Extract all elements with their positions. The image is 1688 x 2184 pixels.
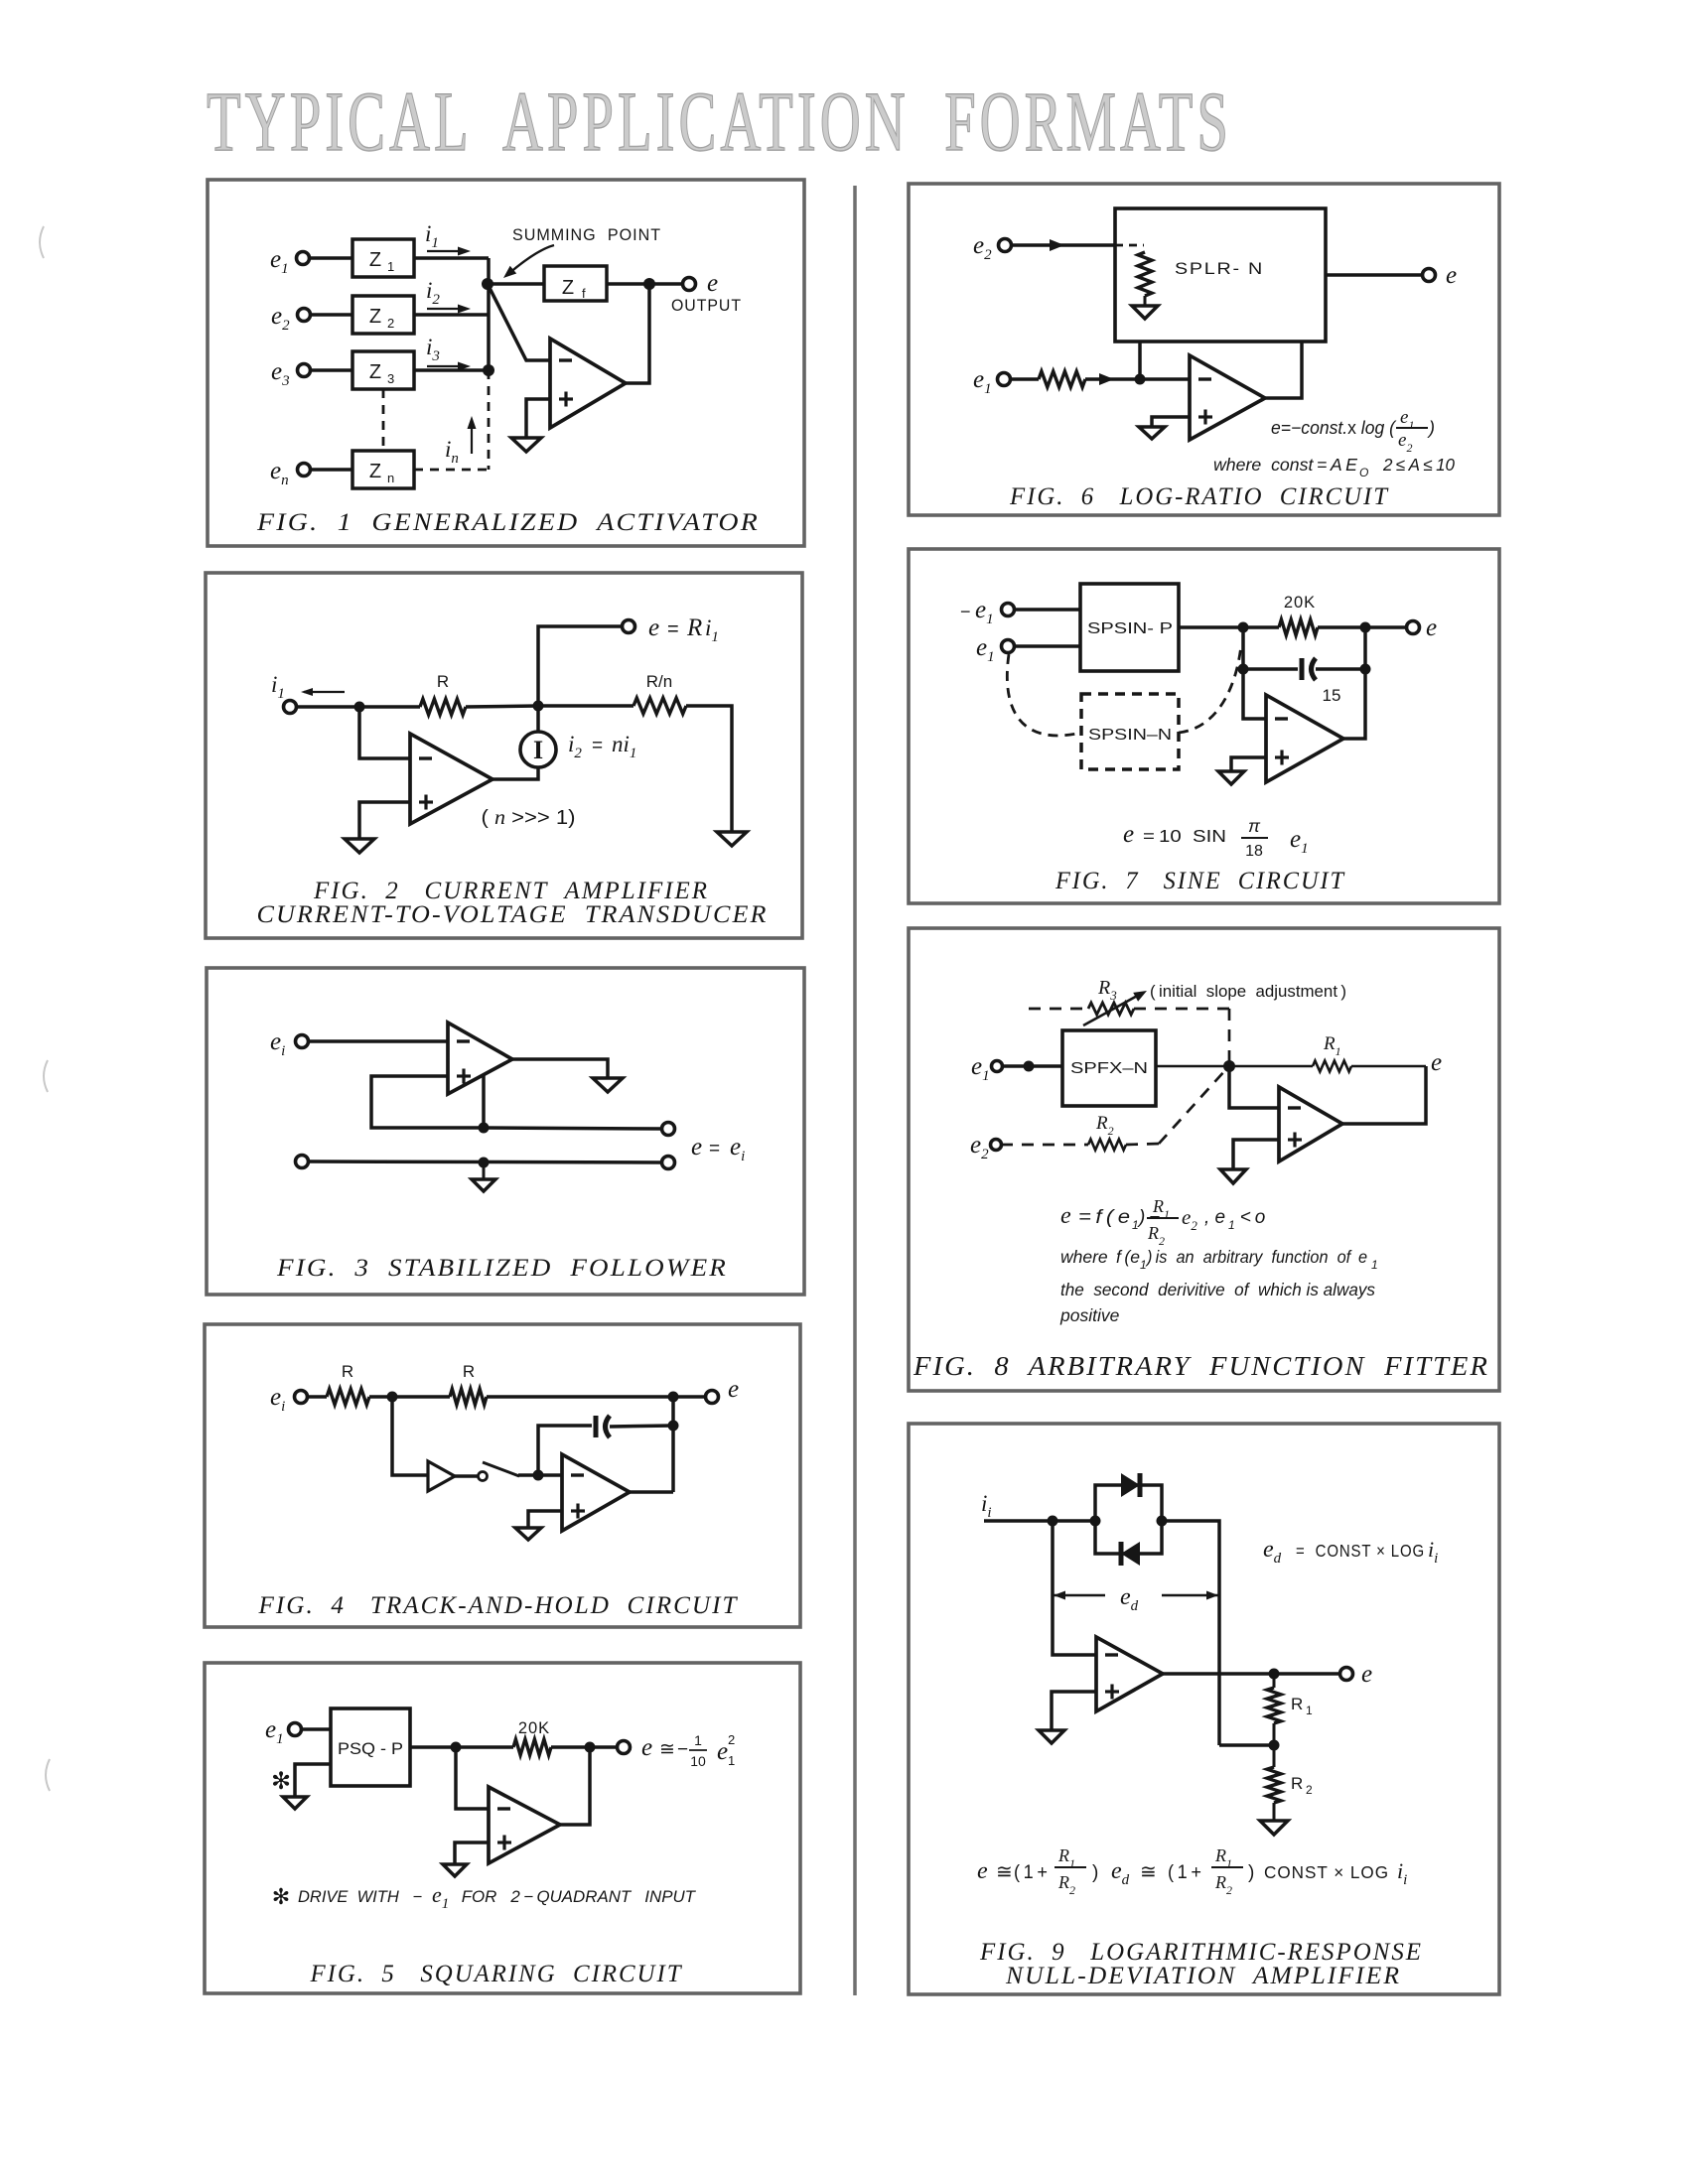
svg-text:Z: Z — [369, 361, 381, 383]
svg-text:FIG. 7 SINE CIRCUIT: FIG. 7 SINE CIRCUIT — [1055, 868, 1345, 894]
svg-text:e: e — [977, 1858, 988, 1884]
svg-text:FIG. 1 GENERALIZED ACTIVATO: FIG. 1 GENERALIZED ACTIVATOR — [256, 509, 760, 536]
wire summing node to R/n — [538, 704, 633, 708]
svg-text:positive: positive — [1059, 1305, 1120, 1325]
figure 1 frame — [208, 180, 804, 546]
figure 9 frame — [909, 1424, 1499, 1994]
svg-text:2: 2 — [1306, 1783, 1313, 1797]
input terminal e1 fig7 — [1002, 640, 1015, 653]
wire summing node down to current source — [536, 706, 540, 732]
svg-text:SPLR- N: SPLR- N — [1175, 259, 1264, 278]
node summing point — [482, 278, 493, 290]
impedance Z3 — [352, 351, 414, 389]
svg-text:O: O — [1359, 466, 1368, 479]
svg-text:NULL-DEVIATION AMPLIFIER: NULL-DEVIATION AMPLIFIER — [1005, 1963, 1401, 1989]
svg-text:TYPICAL APPLICATION FORMATS: TYPICAL APPLICATION FORMATS — [207, 73, 1232, 169]
output terminal e fig6 — [1423, 269, 1436, 282]
input terminal ei fig4 — [295, 1391, 308, 1404]
ground at op-amp plus fig5 — [443, 1864, 467, 1876]
wire node1 down to buffer — [392, 1397, 428, 1475]
wire node2 up to capacitor — [538, 1426, 592, 1475]
ground below R2 — [1273, 1803, 1276, 1821]
lower rail left terminal — [296, 1156, 309, 1168]
diode D1 pointing right — [1121, 1473, 1140, 1497]
svg-text:e: e — [1361, 1661, 1372, 1688]
capacitor C hold — [594, 1416, 599, 1437]
wire summing point to Zf — [488, 282, 544, 286]
ground at op-amp plus fig2 — [345, 839, 374, 853]
figure 3 frame — [207, 968, 804, 1295]
wire node to resistor R — [359, 705, 420, 709]
svg-text:2: 2 — [387, 316, 394, 331]
ground at op-amp plus fig7 — [1218, 771, 1244, 784]
op-amp output wire to ground — [512, 1059, 608, 1078]
node summing fig8 — [1223, 1060, 1235, 1072]
wire op-amp plus to ground fig4 — [528, 1511, 562, 1528]
wire e1 to Z1 — [309, 256, 352, 260]
wire PSQ-P lower left to ground — [295, 1764, 331, 1797]
svg-text:) is an arbitrary function: ) is an arbitrary function of e — [1145, 1247, 1367, 1267]
binding mark 3 — [46, 1759, 50, 1791]
svg-text:( 1 +: ( 1 + — [1014, 1862, 1048, 1883]
wire e1 to resistor — [1010, 377, 1039, 381]
svg-text:e: e — [1426, 614, 1437, 641]
wire e2 to Z2 — [310, 313, 352, 317]
ground at op-amp plus fig4 — [515, 1528, 541, 1540]
wire plus to ground fig5 — [455, 1843, 489, 1864]
output terminal e fig9 — [1340, 1668, 1353, 1681]
feedback bracket to plus input — [371, 1076, 484, 1128]
figure 2 frame — [206, 573, 802, 938]
svg-text:π: π — [1248, 816, 1261, 836]
svg-text:1: 1 — [1140, 1258, 1147, 1272]
output terminal e fig4 — [706, 1391, 719, 1404]
wire plus to ground fig9 — [1052, 1692, 1096, 1730]
wire e2 into SPLR-N with arrow — [1011, 243, 1115, 247]
svg-text:< o: < o — [1236, 1207, 1265, 1228]
vertical tie from triangle to feedback node — [482, 1075, 486, 1128]
dashed bus wire lower — [488, 370, 491, 470]
impedance Zn — [352, 451, 414, 488]
node op-amp minus junction fig4 — [533, 1470, 544, 1481]
internal resistor to ground wire — [1144, 296, 1147, 306]
output terminal fig5 — [618, 1741, 631, 1754]
svg-text:SPFX–N: SPFX–N — [1070, 1060, 1148, 1077]
node4 fig7 — [1360, 664, 1371, 675]
node after first R — [387, 1392, 398, 1403]
wire PSQ-P output to node1 — [410, 1745, 513, 1749]
svg-text:FIG. 3 STABILIZED FOLLOWER: FIG. 3 STABILIZED FOLLOWER — [276, 1255, 728, 1282]
node capacitor right junction — [668, 1421, 679, 1432]
current source I — [520, 732, 556, 767]
wire op-amp minus to node vertical — [1229, 1066, 1279, 1108]
svg-text:R: R — [437, 672, 449, 691]
ground at op-amp plus fig9 — [1039, 1730, 1064, 1743]
terminal en — [298, 464, 311, 477]
node output junction fig4 — [668, 1392, 679, 1403]
resistor R/n — [633, 698, 686, 714]
impedance Z1 — [352, 239, 414, 277]
vertical node1 to node3 — [1241, 627, 1245, 669]
svg-text:OUTPUT: OUTPUT — [671, 297, 742, 315]
wire resistor to node with arrow — [1085, 377, 1140, 381]
wire SPSIN-P output to node1 — [1179, 625, 1279, 629]
svg-text:e: e — [641, 1734, 652, 1761]
svg-text:Z: Z — [562, 277, 574, 299]
svg-text:R: R — [342, 1362, 353, 1381]
output terminal e — [683, 278, 696, 291]
svg-text:1: 1 — [1306, 1704, 1313, 1717]
wire capacitor to node3 — [610, 1426, 673, 1427]
svg-text:e: e — [717, 1738, 728, 1765]
wire summing point to op-amp minus — [488, 284, 550, 360]
svg-text:1: 1 — [1228, 1218, 1235, 1232]
node R1 R2 junction — [1273, 1723, 1276, 1745]
ground at op-amp output — [593, 1078, 623, 1092]
svg-text:): ) — [1427, 418, 1435, 438]
svg-text:): ) — [1092, 1862, 1098, 1883]
node lower rail ground junction — [479, 1158, 490, 1168]
svg-text:✻: ✻ — [272, 1884, 290, 1909]
wire node3 down to op-amp minus — [1243, 669, 1266, 719]
svg-text:e: e — [707, 270, 718, 297]
wire node2 to op-amp minus fig4 — [538, 1473, 562, 1477]
input terminal ei — [296, 1035, 309, 1048]
dashed curve SPSIN-N to node1 — [1179, 645, 1241, 733]
svg-text:Z: Z — [369, 306, 381, 328]
wire op-amp plus to ground — [526, 399, 550, 438]
svg-text:SPSIN–N: SPSIN–N — [1088, 727, 1172, 744]
wire op-amp plus to ground fig2 — [359, 802, 410, 839]
wire Z1 to bus — [414, 256, 489, 260]
svg-text:FIG. 5 SQUARING CIRCUIT: FIG. 5 SQUARING CIRCUIT — [310, 1961, 683, 1987]
wire 20K to output node — [551, 1745, 618, 1749]
wire node up to SPLR-N — [1138, 341, 1142, 379]
op-amp output wire to terminal e fig9 — [1163, 1672, 1340, 1676]
wire Z2 to bus — [414, 313, 489, 317]
dashed curve e1 to SPSIN-N — [1007, 654, 1081, 736]
op-amp output to SPLR-N feedback — [1265, 341, 1302, 398]
svg-text:n: n — [387, 471, 394, 485]
ground inside SPLR-N — [1132, 306, 1158, 319]
dimension arrow ed — [1053, 1594, 1105, 1596]
dashed wire Zn to bus — [414, 469, 489, 472]
node output junction — [643, 278, 655, 290]
svg-text:( 1 +: ( 1 + — [1168, 1862, 1201, 1883]
wire e1 to SPSIN-P — [1014, 644, 1080, 648]
svg-text:R: R — [686, 614, 702, 641]
input terminal e1 fig6 — [998, 373, 1011, 386]
svg-text:−: − — [960, 602, 971, 621]
wire 20K to output — [1318, 625, 1407, 629]
ground at op-amp plus fig6 — [1139, 427, 1165, 439]
svg-text:= 10 SIN: = 10 SIN — [1143, 826, 1226, 846]
dashed wire Z3 to Zn — [382, 389, 385, 451]
lower rail wire — [308, 1161, 662, 1162]
dashed vertical to node fig8 — [1228, 1009, 1231, 1067]
wire R/n to right corner — [686, 706, 732, 832]
wire node1 to R second — [392, 1395, 450, 1399]
svg-text:e: e — [648, 614, 659, 641]
wire plus to ground fig7 — [1231, 757, 1266, 771]
node summing fig6 — [1135, 374, 1146, 385]
svg-text:2 ≤ A ≤ 10: 2 ≤ A ≤ 10 — [1382, 455, 1455, 475]
feedback wire to R1 R2 node — [1219, 1743, 1274, 1747]
wire R to node1 fig4 — [369, 1395, 392, 1399]
node1 fig7 — [1238, 622, 1249, 633]
dashed wire e2 to R2 — [1001, 1144, 1088, 1147]
svg-text:≅: ≅ — [996, 1861, 1013, 1883]
svg-text:18: 18 — [1245, 843, 1263, 860]
input wire ii — [984, 1519, 1095, 1523]
svg-text:2: 2 — [728, 1732, 735, 1747]
node summing junction fig2 — [533, 701, 544, 712]
feedback right side down — [1342, 1066, 1426, 1124]
wire node1 down to op-amp minus fig5 — [456, 1747, 489, 1809]
svg-text:✻: ✻ — [271, 1768, 291, 1795]
svg-text:CONST × LOG: CONST × LOG — [1264, 1862, 1389, 1882]
svg-text:e: e — [1060, 1203, 1071, 1229]
binding mark 2 — [44, 1060, 48, 1092]
svg-text:SPSIN- P: SPSIN- P — [1087, 620, 1173, 637]
column divider line — [853, 186, 857, 1995]
figure 5 frame — [205, 1663, 800, 1993]
svg-text:1: 1 — [694, 1732, 702, 1748]
svg-text:where f (e: where f (e — [1060, 1247, 1140, 1267]
svg-text:Z: Z — [369, 461, 381, 482]
svg-text:1: 1 — [1371, 1258, 1378, 1272]
wire buffer to contact — [455, 1474, 478, 1478]
svg-text:): ) — [1248, 1862, 1254, 1883]
resistor R1 fig8 — [1313, 1061, 1351, 1072]
dashed block SPSIN-N — [1081, 694, 1179, 769]
lower rail right terminal — [662, 1157, 675, 1169]
variable resistor R3 — [1088, 1003, 1134, 1015]
op-amp A4 — [562, 1454, 630, 1531]
switch arm — [483, 1462, 519, 1476]
node3 fig7 — [1238, 664, 1249, 675]
resistor 20K fig7 — [1279, 619, 1318, 635]
output terminal e=ei upper — [662, 1123, 675, 1136]
resistor R — [420, 699, 466, 715]
function block SPLR-N — [1115, 208, 1326, 341]
op-amp output wire fig4 — [630, 1490, 673, 1494]
svg-text:=: = — [667, 618, 679, 640]
svg-text:≅: ≅ — [659, 1739, 675, 1760]
resistor R first fig4 — [327, 1389, 369, 1405]
terminal e1 — [297, 252, 310, 265]
resistor R1 fig9 vertical — [1273, 1674, 1276, 1688]
wire en to Zn — [310, 468, 352, 472]
svg-text:FIG. 2 CURRENT AMPLIFIER: FIG. 2 CURRENT AMPLIFIER — [313, 878, 709, 904]
svg-text:= f ( e: = f ( e — [1078, 1207, 1130, 1228]
node op-amp minus wire fig2 — [359, 707, 410, 758]
left vertical node1 to op-amp minus — [1053, 1521, 1096, 1655]
op-amp A7 — [1266, 695, 1343, 782]
svg-text:FIG. 9 LOGARITHMIC-RESPONSE: FIG. 9 LOGARITHMIC-RESPONSE — [979, 1939, 1423, 1966]
node2 fig7 — [1360, 622, 1371, 633]
resistor 20K fig5 — [513, 1739, 551, 1755]
svg-text:≅: ≅ — [1140, 1861, 1157, 1883]
wire e1 to PSQ-P — [301, 1727, 331, 1731]
node bus-Z3 junction — [483, 364, 494, 376]
diode loop top branch — [1095, 1485, 1162, 1521]
variable resistor R3 dashed branch left — [1029, 1008, 1088, 1011]
output terminal e=Ri1 — [623, 620, 635, 633]
node feedback junction — [479, 1123, 490, 1134]
node after PSQ-P — [451, 1742, 462, 1753]
wire Z3 to bus junction — [414, 368, 489, 372]
wire e3 to Z3 — [310, 368, 352, 372]
figure 4 frame — [205, 1324, 800, 1627]
function block SPFX-N — [1062, 1030, 1156, 1106]
input terminal e2 fig8 — [991, 1140, 1002, 1151]
wire -e1 to SPSIN-P — [1014, 608, 1080, 612]
input terminal i1 — [284, 701, 297, 714]
input terminal e2 fig6 — [999, 239, 1012, 252]
svg-text:e: e — [728, 1376, 739, 1403]
node input fig8 — [1024, 1061, 1035, 1072]
resistor R2 fig9 vertical — [1273, 1745, 1276, 1767]
dashed wire R2 continuing — [1126, 1144, 1159, 1145]
svg-text:SUMMING POINT: SUMMING POINT — [512, 226, 661, 244]
input terminal e1 fig8 — [992, 1061, 1003, 1072]
svg-text:PSQ - P: PSQ - P — [338, 1740, 403, 1758]
vertical feedback wire fig4 — [671, 1397, 675, 1492]
wire switch to node2 — [518, 1473, 538, 1477]
input terminal -e1 — [1002, 604, 1015, 616]
terminal e2 — [298, 309, 311, 322]
svg-text:e: e — [1431, 1049, 1442, 1076]
internal resistor vertical — [1138, 252, 1152, 296]
svg-text:R: R — [1291, 1774, 1303, 1793]
wire i1 to node — [297, 705, 359, 709]
figure 8 frame — [909, 928, 1499, 1391]
wire ei to op-amp minus — [308, 1039, 448, 1043]
input terminal e1 fig5 — [289, 1723, 302, 1736]
svg-text:e: e — [691, 1134, 702, 1160]
ground on lower rail — [483, 1162, 486, 1179]
resistor R2 fig8 — [1088, 1140, 1126, 1151]
node3 diode loop right — [1157, 1516, 1168, 1527]
wire R to summing node — [466, 706, 538, 707]
impedance Zf — [544, 266, 607, 301]
svg-text:20K: 20K — [518, 1719, 550, 1737]
svg-text:the second derivitive of w: the second derivitive of which is always — [1060, 1280, 1375, 1299]
svg-text:=: = — [709, 1139, 720, 1160]
op-amp output wire fig7 — [1343, 669, 1365, 739]
output terminal e fig7 — [1407, 621, 1420, 634]
input resistor fig6 — [1039, 371, 1085, 387]
wire Zf to output node — [607, 282, 689, 286]
binding mark 1 — [40, 226, 44, 258]
op-amp A5 — [489, 1787, 560, 1863]
svg-text:10: 10 — [690, 1753, 706, 1769]
svg-text:FIG. 6 LOG-RATIO CIRCUIT: FIG. 6 LOG-RATIO CIRCUIT — [1009, 483, 1389, 510]
ground at op-amp plus fig8 — [1220, 1169, 1246, 1183]
function block SPSIN-P — [1080, 584, 1179, 671]
node1 fig9 — [1048, 1516, 1058, 1527]
figure 6 frame — [909, 184, 1499, 515]
feedback wire to output terminal — [484, 1128, 662, 1129]
wire e1 to node dot — [1002, 1064, 1062, 1068]
svg-text:e: e — [1446, 262, 1457, 289]
op-amp output wire fig5 — [560, 1747, 590, 1825]
node output fig9 — [1269, 1669, 1280, 1680]
wire node to op-amp minus fig6 — [1140, 377, 1190, 381]
wire plus to ground fig8 — [1233, 1140, 1279, 1169]
wire plus to ground fig6 — [1152, 417, 1190, 427]
svg-text:f: f — [582, 286, 586, 301]
svg-text:20K: 20K — [1284, 594, 1316, 612]
node input junction — [354, 702, 365, 713]
svg-text:( initial slope adjustment ): ( initial slope adjustment ) — [1150, 982, 1346, 1001]
op-amp A9 — [1096, 1637, 1163, 1711]
svg-text:R: R — [1291, 1695, 1303, 1713]
svg-text:Z: Z — [369, 249, 381, 271]
summing point pointer arrow — [508, 245, 554, 274]
svg-text:where const = A E: where const = A E — [1213, 455, 1357, 475]
summing bus wire — [487, 258, 491, 370]
op-amp A2 — [410, 734, 492, 824]
op-amp output wire to node — [626, 284, 649, 383]
capacitor 15 — [1300, 658, 1305, 680]
op-amp A6 — [1190, 355, 1265, 440]
svg-text:FIG. 4 TRACK-AND-HOLD CIRC: FIG. 4 TRACK-AND-HOLD CIRCUIT — [257, 1592, 738, 1619]
ground right leg — [717, 832, 747, 846]
svg-text:DRIVE WITH −: DRIVE WITH − — [298, 1888, 423, 1906]
wire capacitor to node4 — [1316, 667, 1365, 671]
variable resistor R3 dashed branch right — [1134, 1008, 1229, 1011]
svg-text:e: e — [1123, 821, 1134, 848]
dashed stub inside SPLR-N — [1115, 244, 1144, 247]
terminal e3 — [298, 364, 311, 377]
svg-text:1: 1 — [387, 259, 394, 274]
wire node to R1 — [1229, 1065, 1313, 1068]
svg-text:FIG. 8 ARBITRARY FUNCTION: FIG. 8 ARBITRARY FUNCTION FITTER — [913, 1351, 1489, 1381]
wire ei to R first — [307, 1395, 327, 1399]
op-amp A1 — [550, 339, 626, 428]
wire R second to output — [487, 1395, 706, 1399]
svg-text:= CONST × LOG: = CONST × LOG — [1296, 1541, 1425, 1561]
dashed diagonal to summing node — [1159, 1069, 1226, 1144]
wire node up to output — [538, 626, 623, 706]
svg-text:1: 1 — [728, 1753, 735, 1768]
svg-text:15: 15 — [1323, 686, 1341, 705]
node2 diode loop left — [1090, 1516, 1101, 1527]
vertical node2 to node4 — [1363, 627, 1367, 669]
function block PSQ-P — [331, 1708, 410, 1786]
ground PSQ-P input — [283, 1797, 307, 1809]
svg-text:R: R — [463, 1362, 475, 1381]
svg-text:, e: , e — [1204, 1207, 1225, 1228]
op-amp A8 — [1279, 1087, 1342, 1161]
svg-text:R/n: R/n — [646, 672, 672, 691]
svg-text:1: 1 — [1132, 1218, 1139, 1232]
svg-text:e=−const.x log (: e=−const.x log ( — [1271, 418, 1397, 438]
wire R1 to corner and label e — [1351, 1065, 1426, 1068]
arrow current direction i1 — [304, 691, 345, 693]
impedance Z2 — [352, 296, 414, 334]
buffer amplifier triangle — [428, 1461, 455, 1491]
figure 7 frame — [909, 549, 1499, 903]
wire SPFX-N to summing node — [1156, 1065, 1229, 1068]
node output fig5 — [585, 1742, 596, 1753]
resistor R second fig4 — [450, 1389, 487, 1405]
wire node3 to capacitor — [1243, 667, 1298, 671]
wire current source to op-amp output — [492, 767, 538, 779]
svg-text:( n >>> 1): ( n >>> 1) — [482, 807, 576, 829]
